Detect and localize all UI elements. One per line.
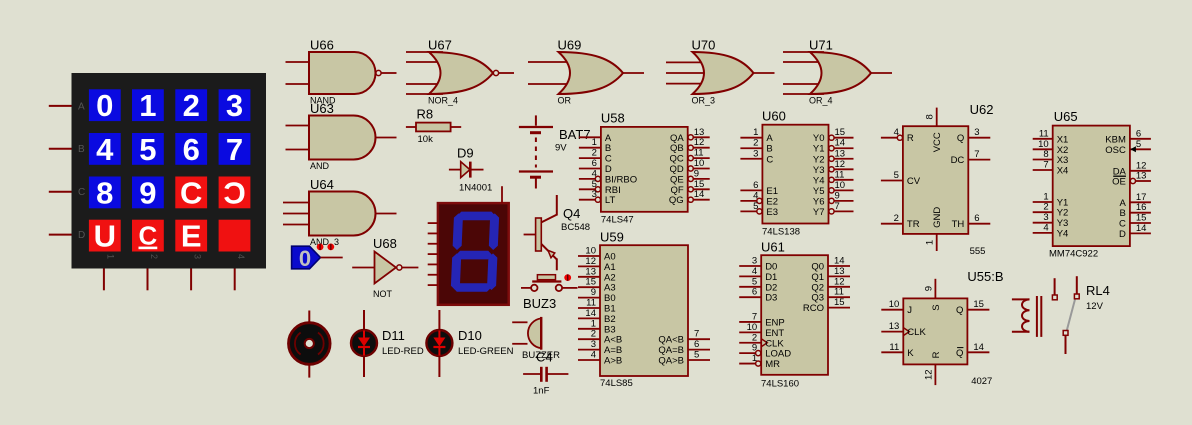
- gate U63 AND: [286, 101, 397, 171]
- keypad key 3: [219, 89, 251, 121]
- svg-text:1nF: 1nF: [533, 386, 550, 397]
- keypad key E: [175, 220, 207, 252]
- relay RL4 12V coil: [1012, 296, 1041, 337]
- svg-text:X1: X1: [1057, 134, 1069, 145]
- svg-text:10: 10: [585, 246, 596, 257]
- svg-text:C: C: [605, 154, 612, 165]
- svg-text:C4: C4: [536, 350, 553, 365]
- svg-text:6: 6: [1136, 128, 1141, 139]
- svg-text:QA<B: QA<B: [658, 335, 684, 346]
- svg-text:17: 17: [1136, 192, 1147, 203]
- svg-text:6: 6: [694, 339, 699, 350]
- svg-text:RCO: RCO: [803, 303, 824, 314]
- keypad key CR: [219, 177, 251, 209]
- capacitor C4 1nF: [523, 350, 568, 397]
- svg-text:BAT7: BAT7: [559, 127, 591, 142]
- svg-text:2: 2: [894, 213, 899, 224]
- svg-text:12: 12: [923, 369, 934, 380]
- svg-text:2: 2: [183, 88, 200, 123]
- svg-text:QA: QA: [670, 133, 684, 144]
- svg-text:2: 2: [753, 138, 758, 149]
- svg-text:QG: QG: [669, 195, 684, 206]
- svg-text:E2: E2: [766, 196, 778, 207]
- svg-text:11: 11: [834, 287, 844, 298]
- gate U66 NAND: [286, 38, 397, 106]
- svg-text:14: 14: [585, 308, 596, 319]
- svg-text:TH: TH: [952, 219, 965, 230]
- svg-text:U66: U66: [310, 38, 334, 53]
- svg-text:CLK: CLK: [765, 338, 784, 349]
- svg-text:7: 7: [1043, 160, 1048, 171]
- svg-text:D: D: [78, 230, 85, 241]
- svg-text:AND: AND: [310, 161, 330, 171]
- svg-text:Q: Q: [957, 133, 964, 144]
- svg-text:U55:B: U55:B: [967, 269, 1003, 284]
- svg-text:14: 14: [835, 138, 846, 149]
- svg-text:6: 6: [592, 158, 597, 169]
- svg-text:10: 10: [694, 158, 705, 169]
- svg-text:NOR_4: NOR_4: [428, 96, 458, 106]
- svg-text:1: 1: [752, 353, 757, 364]
- wire keypad column 3: [190, 269, 192, 291]
- svg-text:A: A: [605, 133, 612, 144]
- svg-text:QB: QB: [670, 143, 684, 154]
- keypad key 7: [219, 133, 251, 165]
- svg-text:A2: A2: [604, 272, 616, 283]
- wire keypad row A: [49, 105, 72, 107]
- svg-text:D9: D9: [457, 146, 474, 161]
- svg-text:7: 7: [974, 149, 979, 160]
- svg-text:A: A: [1120, 198, 1127, 209]
- svg-text:Y1: Y1: [813, 144, 825, 155]
- svg-text:11: 11: [1039, 128, 1049, 139]
- svg-text:U: U: [94, 219, 116, 254]
- svg-text:10: 10: [747, 322, 758, 333]
- svg-text:12: 12: [835, 159, 846, 170]
- svg-text:D2: D2: [765, 282, 777, 293]
- svg-text:1: 1: [139, 88, 156, 123]
- svg-text:KBM: KBM: [1105, 134, 1126, 145]
- svg-text:0: 0: [96, 88, 113, 123]
- svg-text:5: 5: [753, 201, 758, 212]
- keypad key U: [89, 220, 121, 252]
- svg-text:OSC: OSC: [1105, 145, 1126, 156]
- svg-text:OR_4: OR_4: [809, 96, 833, 106]
- gate U70 OR_3: [666, 38, 775, 106]
- svg-text:6: 6: [752, 287, 757, 298]
- svg-text:C: C: [180, 175, 202, 210]
- svg-text:7: 7: [835, 201, 840, 212]
- svg-text:12: 12: [834, 276, 845, 287]
- wire keypad column 1: [103, 269, 105, 291]
- svg-text:12: 12: [585, 256, 596, 267]
- svg-text:C: C: [1119, 219, 1126, 230]
- svg-text:B: B: [605, 143, 611, 154]
- svg-text:A>B: A>B: [604, 356, 622, 367]
- svg-text:1: 1: [591, 318, 596, 329]
- keypad key 1: [132, 89, 164, 121]
- svg-text:X3: X3: [1057, 155, 1069, 166]
- speaker: [289, 311, 331, 378]
- svg-text:15: 15: [834, 297, 845, 308]
- svg-text:6: 6: [974, 213, 979, 224]
- svg-text:9: 9: [139, 175, 156, 210]
- svg-text:D: D: [605, 164, 612, 175]
- svg-text:B3: B3: [604, 324, 616, 335]
- IC U58: [579, 111, 710, 226]
- svg-text:A1: A1: [604, 262, 616, 273]
- svg-text:VCC: VCC: [932, 132, 943, 152]
- svg-text:4: 4: [1043, 222, 1048, 233]
- svg-text:14: 14: [973, 342, 984, 353]
- svg-text:9: 9: [591, 287, 596, 298]
- svg-text:12V: 12V: [1086, 301, 1104, 312]
- wire keypad row C: [49, 191, 72, 193]
- wire keypad row D: [49, 234, 72, 236]
- svg-text:Y0: Y0: [813, 133, 825, 144]
- svg-text:Q1: Q1: [811, 272, 824, 283]
- svg-text:MR: MR: [765, 359, 780, 370]
- svg-text:4: 4: [591, 350, 596, 361]
- svg-text:E: E: [181, 219, 202, 254]
- svg-text:D10: D10: [458, 328, 482, 343]
- svg-text:14: 14: [1136, 223, 1147, 234]
- svg-text:Q0: Q0: [811, 262, 824, 273]
- svg-text:1: 1: [105, 254, 115, 259]
- svg-text:D1: D1: [765, 272, 777, 283]
- svg-text:4: 4: [894, 127, 899, 138]
- svg-text:LED-RED: LED-RED: [382, 346, 424, 357]
- svg-text:D3: D3: [765, 293, 777, 304]
- keypad body: [72, 73, 267, 269]
- svg-text:11: 11: [835, 169, 845, 180]
- svg-text:11: 11: [586, 298, 596, 309]
- svg-text:Q2: Q2: [811, 282, 824, 293]
- svg-text:Q: Q: [956, 305, 963, 316]
- svg-text:BI/RBO: BI/RBO: [605, 174, 637, 185]
- svg-text:A<B: A<B: [604, 335, 622, 346]
- svg-text:3: 3: [753, 148, 758, 159]
- svg-text:3: 3: [592, 189, 597, 200]
- svg-text:10: 10: [835, 180, 846, 191]
- svg-text:U63: U63: [310, 101, 334, 116]
- svg-text:1: 1: [592, 137, 597, 148]
- svg-text:14: 14: [694, 189, 705, 200]
- svg-text:E3: E3: [766, 207, 778, 218]
- svg-text:13: 13: [585, 266, 596, 277]
- svg-text:74LS47: 74LS47: [601, 215, 634, 226]
- svg-text:A0: A0: [604, 252, 616, 263]
- svg-text:5: 5: [752, 276, 757, 287]
- svg-text:TR: TR: [907, 219, 920, 230]
- svg-text:U68: U68: [373, 236, 397, 251]
- wire keypad column 4: [234, 269, 236, 291]
- svg-text:15: 15: [835, 127, 846, 138]
- svg-text:U67: U67: [428, 38, 452, 53]
- diode D9 1N4001: [449, 146, 492, 194]
- svg-text:Y5: Y5: [813, 186, 825, 197]
- svg-text:5: 5: [592, 179, 597, 190]
- keypad key 9: [132, 177, 164, 209]
- svg-text:0: 0: [299, 246, 311, 271]
- gate U68 NOT: [352, 236, 418, 299]
- svg-text:C: C: [78, 187, 85, 198]
- svg-text:Y2: Y2: [813, 154, 825, 165]
- svg-text:15: 15: [585, 277, 596, 288]
- svg-text:GND: GND: [932, 207, 943, 228]
- svg-text:LED-GREEN: LED-GREEN: [458, 346, 514, 357]
- svg-text:U58: U58: [601, 111, 625, 126]
- svg-text:9: 9: [694, 168, 699, 179]
- svg-text:OR_3: OR_3: [692, 96, 716, 106]
- svg-text:MM74C922: MM74C922: [1049, 249, 1098, 260]
- keypad key C: [175, 177, 207, 209]
- svg-text:R8: R8: [417, 107, 434, 122]
- svg-text:11: 11: [694, 148, 704, 159]
- svg-text:Y4: Y4: [813, 175, 825, 186]
- svg-text:C: C: [766, 154, 773, 165]
- svg-text:ENP: ENP: [765, 317, 785, 328]
- svg-text:S: S: [931, 304, 942, 310]
- IC U61: [739, 240, 850, 390]
- svg-text:15: 15: [1136, 213, 1147, 224]
- svg-text:2: 2: [1043, 202, 1048, 213]
- svg-text:14: 14: [834, 256, 845, 267]
- svg-text:A=B: A=B: [604, 345, 622, 356]
- svg-text:Q: Q: [956, 348, 963, 359]
- svg-text:74LS160: 74LS160: [761, 379, 799, 390]
- wire keypad row B: [49, 148, 72, 150]
- svg-text:QE: QE: [670, 174, 684, 185]
- IC U55:B: [881, 269, 1003, 387]
- svg-text:K: K: [907, 348, 914, 359]
- svg-text:4: 4: [236, 254, 246, 259]
- svg-text:2: 2: [592, 148, 597, 159]
- svg-text:4: 4: [592, 168, 597, 179]
- svg-text:7: 7: [226, 132, 243, 167]
- svg-text:5: 5: [694, 350, 699, 361]
- svg-text:QA=B: QA=B: [658, 345, 684, 356]
- keypad key 2: [175, 89, 207, 121]
- gate U69 OR: [528, 38, 644, 106]
- svg-text:4: 4: [752, 266, 757, 277]
- svg-text:10: 10: [889, 299, 900, 310]
- keypad key 5: [132, 133, 164, 165]
- svg-text:CV: CV: [907, 176, 921, 187]
- svg-text:11: 11: [889, 342, 899, 353]
- relay RL4 switch: [1052, 276, 1109, 354]
- wire keypad column 2: [147, 269, 149, 291]
- transistor Q4 BC548: [524, 195, 590, 270]
- svg-text:1: 1: [925, 240, 936, 245]
- svg-text:U62: U62: [970, 102, 994, 117]
- svg-text:3: 3: [974, 127, 979, 138]
- svg-text:3: 3: [226, 88, 243, 123]
- gate U71 OR_4: [783, 38, 892, 106]
- svg-text:4: 4: [753, 190, 758, 201]
- svg-text:OR: OR: [558, 96, 572, 106]
- keypad key CU: [132, 220, 164, 252]
- svg-text:1: 1: [753, 127, 758, 138]
- IC U65: [1033, 109, 1151, 260]
- svg-text:A3: A3: [604, 283, 616, 294]
- svg-text:Y2: Y2: [1057, 208, 1069, 219]
- svg-text:13: 13: [694, 127, 705, 138]
- svg-text:E1: E1: [766, 186, 778, 197]
- svg-text:8: 8: [925, 114, 936, 119]
- svg-text:Y3: Y3: [813, 165, 825, 176]
- svg-text:D0: D0: [765, 262, 777, 273]
- IC U59: [578, 230, 710, 390]
- svg-text:3: 3: [193, 254, 203, 259]
- 7-segment display: [438, 203, 509, 305]
- svg-text:RBI: RBI: [605, 185, 621, 196]
- svg-text:3: 3: [752, 256, 757, 267]
- svg-text:J: J: [907, 305, 912, 316]
- svg-text:A: A: [78, 101, 85, 112]
- svg-text:RL4: RL4: [1086, 283, 1110, 298]
- svg-text:2: 2: [752, 332, 757, 343]
- svg-text:555: 555: [970, 246, 986, 257]
- svg-text:5: 5: [1136, 139, 1141, 150]
- svg-text:X4: X4: [1057, 166, 1069, 177]
- svg-text:9: 9: [923, 286, 934, 291]
- svg-text:C: C: [139, 221, 158, 251]
- svg-text:B: B: [78, 144, 85, 155]
- svg-text:6: 6: [753, 180, 758, 191]
- svg-text:QA>B: QA>B: [658, 356, 684, 367]
- svg-text:6: 6: [183, 132, 200, 167]
- svg-text:13: 13: [1136, 171, 1147, 182]
- svg-text:U61: U61: [761, 240, 785, 255]
- svg-text:U59: U59: [600, 230, 624, 245]
- svg-text:7: 7: [694, 329, 699, 340]
- svg-text:AND_3: AND_3: [310, 237, 339, 247]
- origin markers (red): [317, 244, 334, 251]
- svg-text:74LS138: 74LS138: [762, 227, 800, 238]
- svg-text:U69: U69: [558, 38, 582, 53]
- svg-text:8: 8: [96, 175, 113, 210]
- svg-text:1N4001: 1N4001: [459, 183, 492, 194]
- svg-text:QF: QF: [670, 185, 683, 196]
- battery BAT7 9V: [519, 115, 591, 188]
- svg-text:Q3: Q3: [811, 293, 824, 304]
- svg-text:DC: DC: [951, 155, 965, 166]
- svg-text:9V: 9V: [555, 143, 567, 154]
- svg-text:B: B: [766, 144, 772, 155]
- svg-text:9: 9: [835, 190, 840, 201]
- svg-text:QD: QD: [669, 164, 683, 175]
- svg-text:OE: OE: [1112, 177, 1126, 188]
- svg-text:2: 2: [591, 329, 596, 340]
- gate U64 AND_3: [283, 177, 397, 247]
- svg-text:12: 12: [694, 137, 705, 148]
- svg-text:ENT: ENT: [765, 328, 784, 339]
- svg-text:QC: QC: [669, 154, 683, 165]
- svg-text:7: 7: [752, 311, 757, 322]
- keypad key 4: [89, 133, 121, 165]
- gate U67 NOR_4: [406, 38, 514, 106]
- svg-text:5: 5: [139, 132, 156, 167]
- svg-text:D: D: [1119, 229, 1126, 240]
- svg-text:Y4: Y4: [1057, 228, 1069, 239]
- svg-text:8: 8: [1043, 149, 1048, 160]
- LED D10 LED-GREEN: [426, 310, 513, 377]
- svg-text:B0: B0: [604, 293, 616, 304]
- svg-text:Y7: Y7: [813, 207, 825, 218]
- svg-text:U60: U60: [762, 109, 786, 124]
- svg-text:U71: U71: [809, 38, 833, 53]
- svg-text:C: C: [223, 175, 245, 210]
- svg-text:A: A: [766, 133, 773, 144]
- logic state probe 0: [292, 246, 343, 271]
- svg-text:LOAD: LOAD: [765, 349, 791, 360]
- svg-text:13: 13: [834, 266, 845, 277]
- keypad key 6: [175, 133, 207, 165]
- svg-text:R: R: [931, 351, 942, 358]
- keypad key 0: [89, 89, 121, 121]
- svg-text:5: 5: [894, 170, 899, 181]
- svg-text:13: 13: [889, 321, 900, 332]
- svg-text:BUZ3: BUZ3: [523, 296, 556, 311]
- IC U62: [881, 102, 994, 257]
- buzzer BUZ3: [512, 296, 560, 361]
- svg-text:NOT: NOT: [373, 289, 393, 299]
- svg-text:2: 2: [149, 254, 159, 259]
- push button: [521, 274, 578, 291]
- keypad key blank: [219, 220, 251, 252]
- svg-text:B1: B1: [604, 304, 616, 315]
- svg-text:CLK: CLK: [907, 327, 926, 338]
- LED D11 LED-RED: [351, 310, 424, 377]
- svg-text:BC548: BC548: [561, 222, 590, 233]
- svg-text:R: R: [907, 133, 914, 144]
- resistor R8 10k: [406, 107, 461, 146]
- svg-text:74LS85: 74LS85: [600, 378, 633, 389]
- svg-text:Q4: Q4: [563, 206, 580, 221]
- svg-text:U65: U65: [1054, 109, 1078, 124]
- svg-text:13: 13: [835, 148, 846, 159]
- svg-text:10k: 10k: [418, 134, 434, 145]
- keypad key 8: [89, 177, 121, 209]
- IC U60: [740, 109, 853, 238]
- svg-text:D11: D11: [382, 328, 405, 343]
- svg-text:U64: U64: [310, 177, 334, 192]
- svg-text:15: 15: [694, 179, 705, 190]
- svg-text:U70: U70: [692, 38, 716, 53]
- svg-text:4: 4: [96, 132, 114, 167]
- svg-text:Y6: Y6: [813, 196, 825, 207]
- svg-text:4027: 4027: [971, 376, 992, 387]
- svg-text:B2: B2: [604, 314, 616, 325]
- svg-text:3: 3: [591, 339, 596, 350]
- svg-text:LT: LT: [605, 195, 616, 206]
- svg-text:9: 9: [752, 343, 757, 354]
- svg-text:15: 15: [973, 299, 984, 310]
